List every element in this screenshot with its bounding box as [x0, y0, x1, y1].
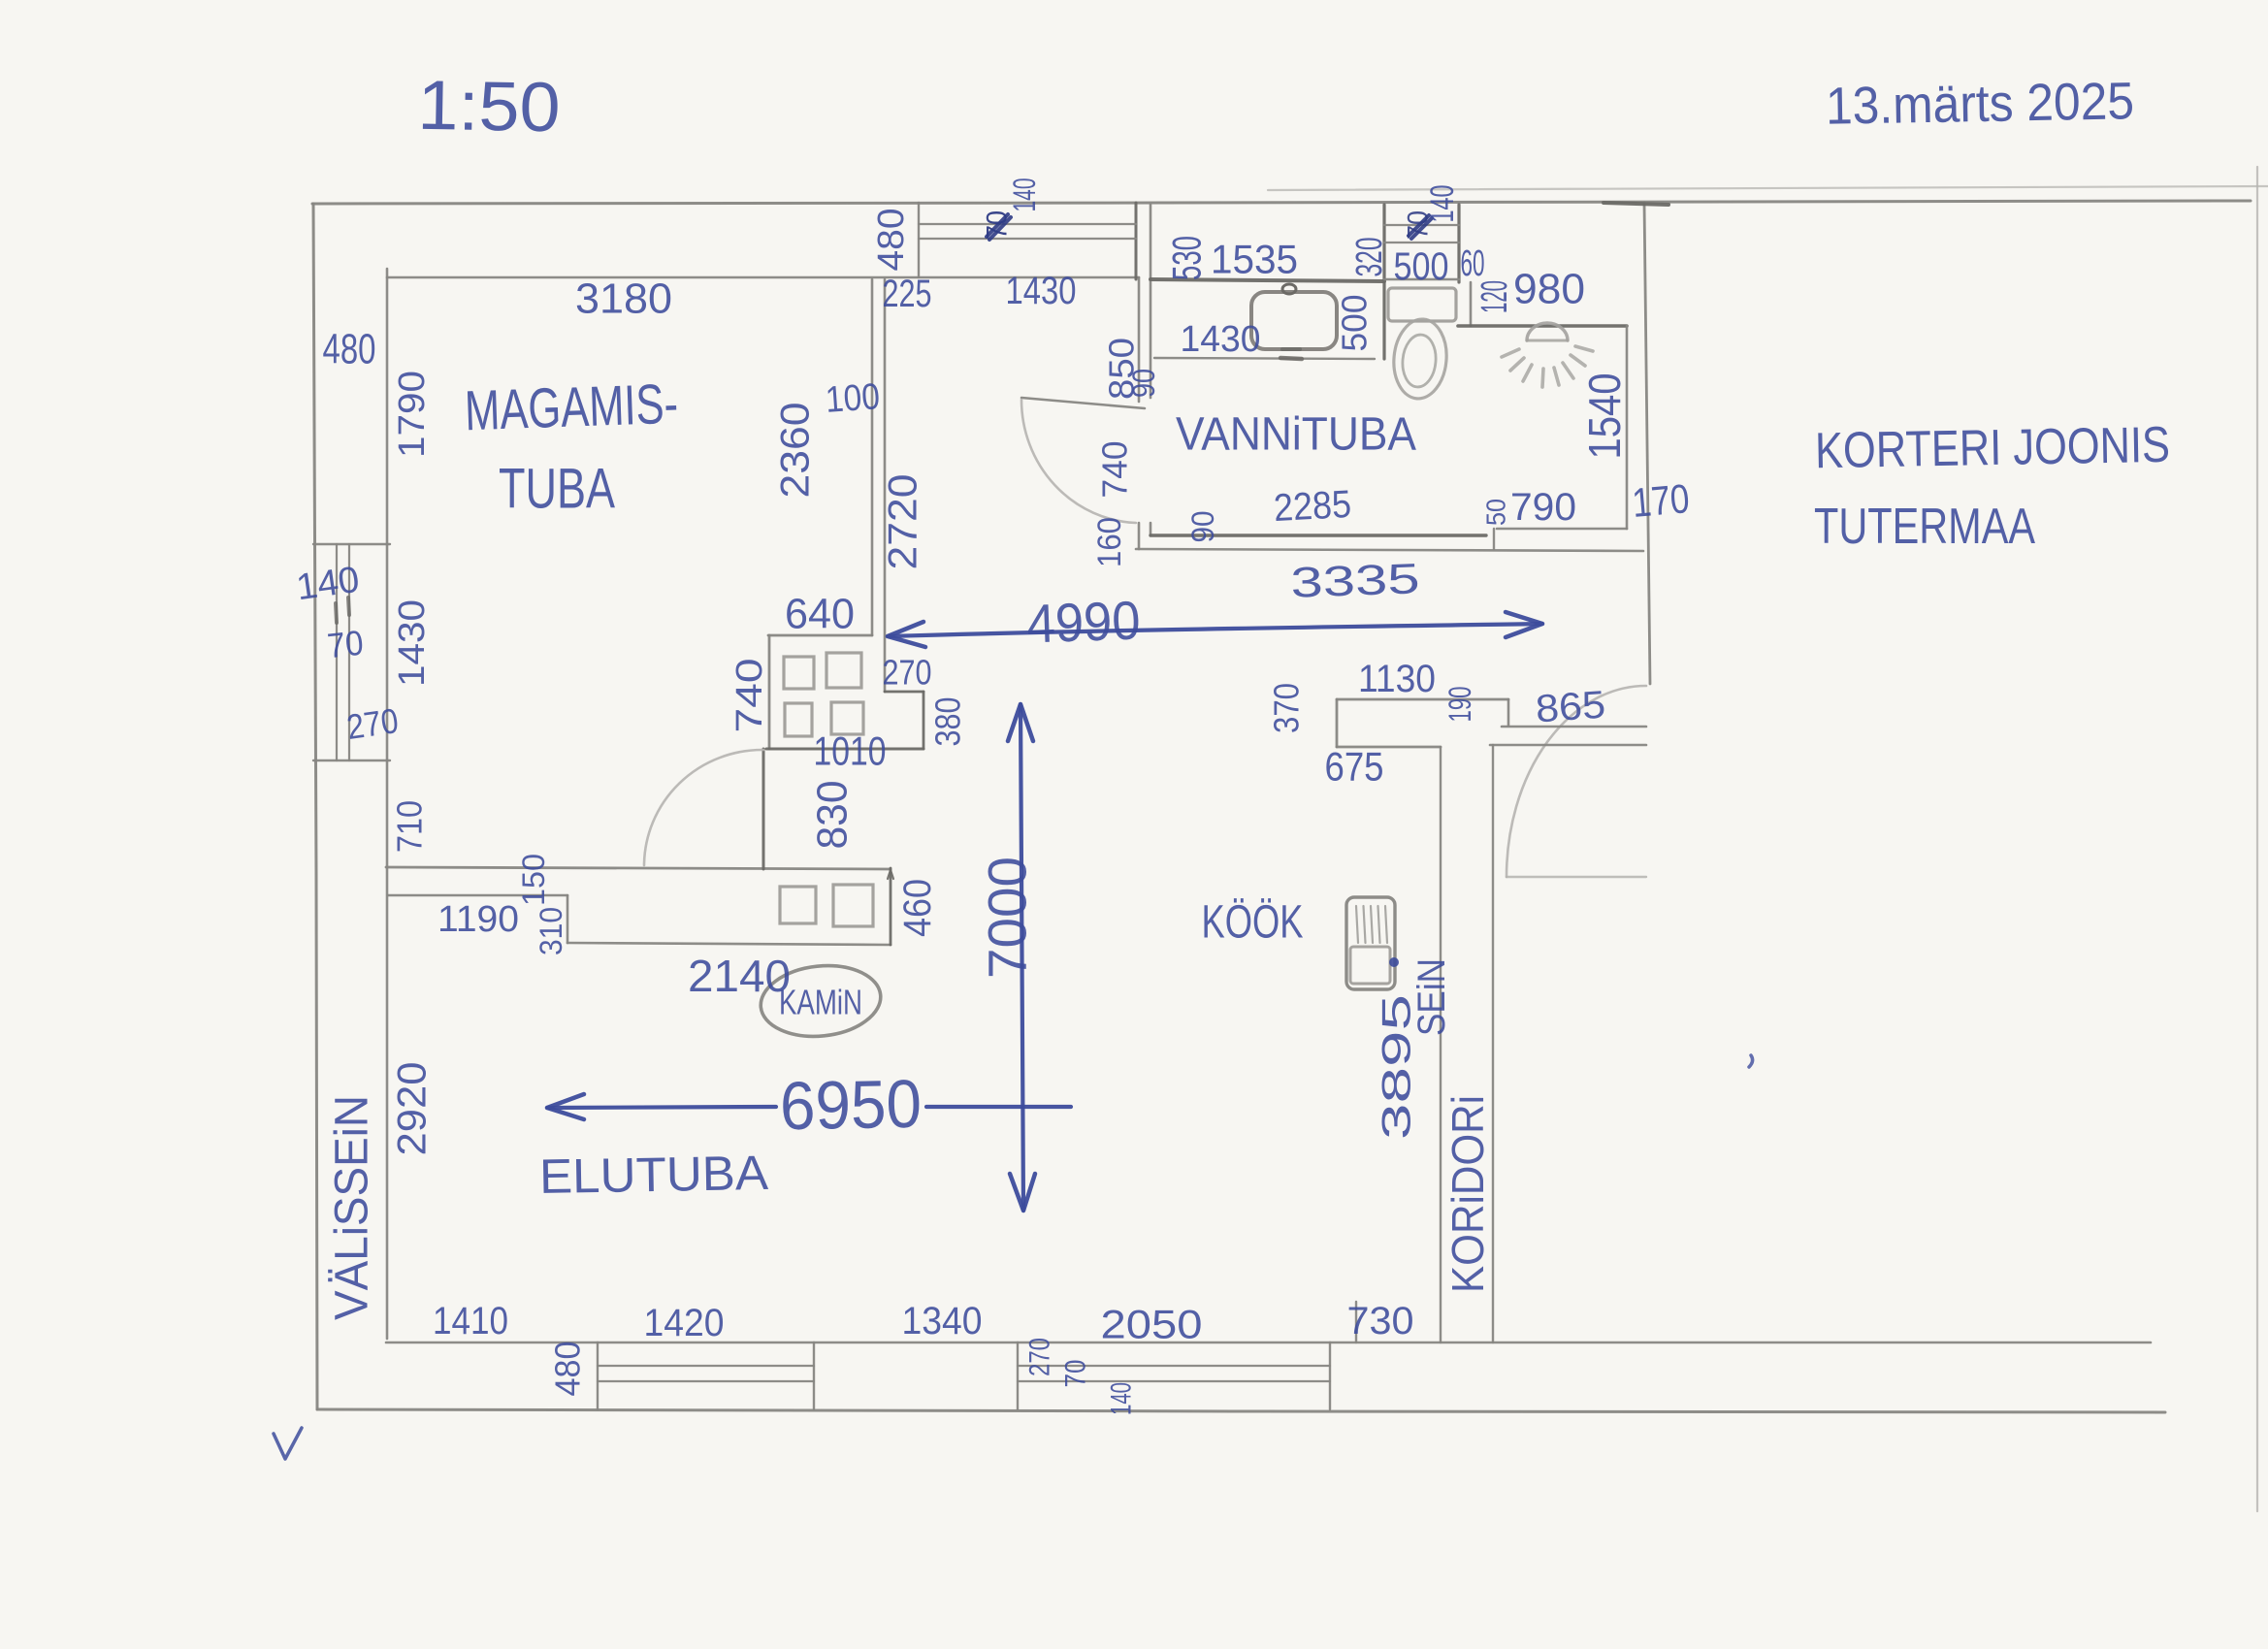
svg-text:1190: 1190 [437, 899, 519, 940]
svg-text:480: 480 [323, 326, 376, 373]
svg-text:70: 70 [325, 623, 365, 666]
svg-text:160: 160 [1091, 517, 1128, 567]
svg-text:3180: 3180 [575, 275, 672, 323]
svg-text:480: 480 [548, 1342, 588, 1397]
svg-text:1410: 1410 [433, 1300, 508, 1342]
svg-text:2360: 2360 [772, 403, 818, 499]
svg-text:1:50: 1:50 [417, 67, 561, 147]
svg-text:730: 730 [1347, 1300, 1414, 1342]
svg-text:60: 60 [1461, 243, 1485, 284]
svg-text:980: 980 [1513, 266, 1585, 313]
svg-text:190: 190 [1442, 687, 1477, 723]
svg-text:640: 640 [785, 591, 855, 638]
svg-text:740: 740 [1095, 441, 1135, 499]
svg-text:2050: 2050 [1101, 1302, 1203, 1347]
svg-text:1430: 1430 [1006, 270, 1077, 312]
svg-text:380: 380 [928, 697, 968, 747]
svg-text:70: 70 [1060, 1360, 1092, 1388]
svg-text:270: 270 [344, 700, 401, 747]
svg-text:270: 270 [1024, 1338, 1056, 1376]
svg-text:90: 90 [1126, 369, 1161, 398]
svg-text:140: 140 [1007, 178, 1042, 212]
svg-text:TUBA: TUBA [499, 458, 615, 521]
svg-text:1340: 1340 [902, 1300, 983, 1342]
svg-text:MAGAMIS-: MAGAMIS- [464, 372, 679, 443]
svg-text:1430: 1430 [392, 599, 433, 687]
svg-text:310: 310 [534, 907, 568, 955]
svg-text:320: 320 [1349, 238, 1390, 277]
svg-text:710: 710 [390, 800, 430, 853]
svg-text:ELUTUBA: ELUTUBA [539, 1146, 770, 1204]
svg-text:675: 675 [1325, 744, 1384, 790]
svg-text:865: 865 [1535, 684, 1607, 731]
svg-text:500: 500 [1394, 245, 1449, 288]
svg-text:460: 460 [896, 879, 939, 937]
svg-text:170: 170 [1631, 475, 1692, 526]
svg-text:2720: 2720 [880, 474, 925, 570]
svg-text:790: 790 [1510, 486, 1576, 529]
svg-text:13.märts 2025: 13.märts 2025 [1826, 72, 2135, 136]
svg-text:SEiN: SEiN [1410, 958, 1453, 1036]
svg-text:120: 120 [1474, 280, 1515, 313]
svg-text:2285: 2285 [1273, 483, 1352, 530]
svg-text:2920: 2920 [389, 1062, 435, 1156]
svg-text:140: 140 [1106, 1382, 1138, 1415]
svg-text:4990: 4990 [1025, 589, 1141, 654]
svg-text:140: 140 [1424, 185, 1461, 223]
svg-text:KORiDORi: KORiDORi [1442, 1095, 1493, 1293]
svg-text:1430: 1430 [1181, 319, 1261, 360]
svg-text:1790: 1790 [392, 371, 433, 458]
svg-text:1540: 1540 [1579, 373, 1630, 460]
svg-text:225: 225 [883, 273, 932, 315]
svg-text:1130: 1130 [1358, 658, 1436, 700]
svg-text:VANNiTUBA: VANNiTUBA [1176, 409, 1416, 461]
svg-text:530: 530 [1164, 236, 1210, 280]
svg-text:150: 150 [516, 854, 551, 906]
svg-text:7000: 7000 [977, 857, 1038, 979]
svg-text:140: 140 [294, 560, 362, 609]
svg-text:90: 90 [1185, 511, 1220, 543]
svg-text:1010: 1010 [814, 728, 887, 774]
svg-text:VÄLiSSEiN: VÄLiSSEiN [327, 1095, 378, 1320]
svg-text:2140: 2140 [688, 951, 791, 1001]
svg-text:740: 740 [729, 659, 770, 733]
svg-text:KÖÖK: KÖÖK [1202, 897, 1304, 949]
svg-text:100: 100 [825, 376, 882, 421]
svg-text:KAMiN: KAMiN [779, 983, 862, 1022]
svg-text:3335: 3335 [1290, 555, 1421, 607]
svg-text:370: 370 [1267, 683, 1307, 733]
svg-text:500: 500 [1335, 295, 1375, 352]
svg-text:50: 50 [1481, 499, 1511, 526]
svg-text:KORTERI JOONIS: KORTERI JOONIS [1815, 417, 2171, 479]
svg-text:270: 270 [883, 653, 932, 693]
svg-text:TUTERMAA: TUTERMAA [1814, 499, 2035, 555]
svg-text:480: 480 [871, 209, 912, 272]
svg-text:1535: 1535 [1211, 237, 1298, 282]
svg-text:1420: 1420 [644, 1302, 725, 1344]
svg-text:830: 830 [809, 781, 857, 850]
svg-text:6950: 6950 [779, 1066, 922, 1145]
